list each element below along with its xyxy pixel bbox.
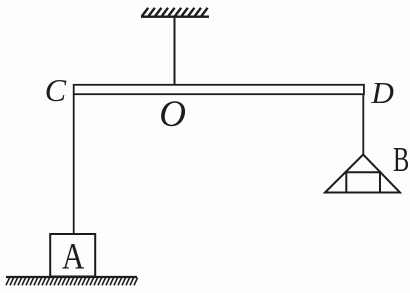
svg-text:A: A bbox=[62, 237, 85, 278]
svg-text:B: B bbox=[393, 140, 409, 179]
svg-text:D: D bbox=[371, 75, 394, 110]
svg-text:O: O bbox=[159, 94, 186, 135]
svg-text:C: C bbox=[45, 72, 67, 108]
